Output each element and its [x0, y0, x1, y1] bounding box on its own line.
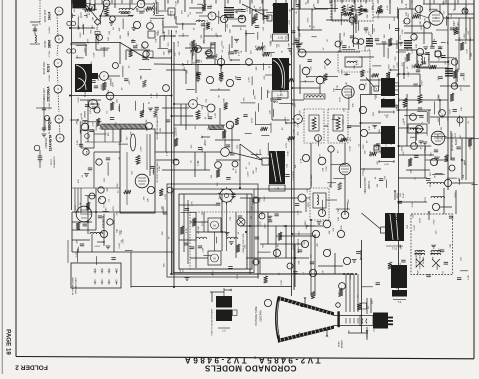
capacitor	[419, 114, 423, 116]
svg-text:0.047: 0.047	[180, 268, 182, 274]
svg-text:82K: 82K	[229, 28, 231, 32]
svg-text:270V: 270V	[339, 97, 341, 103]
wire	[210, 291, 224, 293]
wire	[118, 143, 128, 145]
hor hold control	[215, 162, 222, 169]
svg-text:33K: 33K	[201, 34, 203, 38]
focus dimension label	[218, 327, 230, 329]
svg-text:33K: 33K	[156, 6, 158, 10]
wire	[245, 30, 247, 52]
resistor	[142, 80, 146, 87]
left margin cap 1	[42, 107, 46, 109]
trap resistor 1	[312, 117, 316, 129]
wire	[369, 68, 371, 94]
svg-text:IM: IM	[78, 25, 80, 28]
svg-text:4.7K: 4.7K	[418, 130, 420, 135]
resistor	[256, 46, 263, 50]
top edge lead	[121, 0, 123, 4]
wire	[261, 157, 276, 159]
wire	[83, 8, 98, 10]
svg-text:RF TRANSFORMER: RF TRANSFORMER	[72, 277, 75, 295]
capacitor	[449, 215, 453, 217]
svg-text:33K: 33K	[251, 206, 253, 210]
wire	[76, 57, 84, 59]
wire	[404, 115, 420, 117]
wire	[267, 143, 269, 156]
top edge lead	[261, 0, 263, 4]
wire	[158, 48, 169, 50]
trap dashed box 1	[304, 109, 324, 143]
svg-text:270V: 270V	[422, 80, 424, 86]
filter choke box 2	[208, 251, 221, 265]
svg-text:82K: 82K	[253, 200, 255, 204]
first IF amp tube	[100, 72, 109, 81]
power supply outer wire loop	[167, 184, 258, 277]
sound resistor 1	[388, 38, 392, 46]
page right border line	[473, 0, 475, 359]
resistor	[429, 65, 436, 69]
wire	[424, 57, 426, 63]
wire	[378, 78, 380, 87]
voltage arrow	[232, 59, 240, 61]
wire hor section	[174, 103, 189, 105]
wire brightness net a	[292, 233, 312, 235]
wire	[95, 188, 97, 230]
hor cap 2	[226, 144, 230, 146]
vertical double bus (video line b)	[293, 0, 295, 290]
resistor	[444, 155, 448, 162]
svg-text:33K: 33K	[380, 150, 382, 154]
wire	[419, 74, 421, 94]
wire	[257, 198, 259, 226]
wire	[310, 143, 312, 188]
wire	[348, 332, 368, 334]
tube lineup legend circle V6 (12AX4GTA)	[56, 134, 64, 142]
wire	[311, 9, 313, 30]
wire audio out plate	[445, 137, 474, 139]
socket side box	[361, 303, 367, 309]
sound trap tube circle	[238, 15, 246, 23]
wire bus left lower	[71, 212, 73, 252]
capacitor	[195, 59, 199, 61]
top edge lead	[101, 0, 103, 4]
wire	[191, 49, 193, 60]
wire	[125, 50, 127, 60]
capacitor	[453, 109, 457, 111]
T6 dimension label	[379, 161, 394, 163]
wire osc coil down	[353, 24, 355, 47]
resistor	[357, 303, 361, 310]
ground	[84, 173, 89, 175]
resistor	[311, 291, 315, 298]
top edge lead	[445, 0, 447, 4]
ps circle 1	[167, 187, 173, 193]
wire	[349, 273, 351, 279]
wire	[162, 207, 164, 214]
sync amp tube	[81, 123, 89, 131]
svg-text:10K: 10K	[155, 38, 157, 42]
vert cap 2	[106, 157, 110, 159]
wire	[292, 99, 304, 101]
wire	[340, 12, 342, 25]
osc coil with core	[353, 15, 355, 25]
svg-text:IM: IM	[284, 225, 286, 228]
capacitor	[347, 125, 351, 127]
audio out wires	[406, 94, 408, 146]
top edge lead	[251, 0, 253, 4]
top edge lead	[307, 0, 309, 4]
capacitor	[110, 117, 114, 119]
damper tube (12AX4GTA)	[76, 206, 92, 222]
top edge lead	[131, 0, 133, 4]
audio det inner electrode	[432, 14, 440, 16]
wire T4 to tube	[395, 89, 399, 91]
IF circle a	[195, 46, 202, 53]
damper resistor 2	[86, 202, 90, 210]
wire	[218, 11, 220, 24]
osc winding stack	[366, 38, 373, 39]
ion trap coil	[317, 195, 319, 205]
wire	[94, 0, 96, 10]
resistor	[262, 52, 269, 56]
wire	[332, 119, 338, 121]
svg-text:120V: 120V	[464, 33, 466, 39]
voltage arrow	[392, 69, 399, 71]
svg-text:10K: 10K	[109, 30, 111, 34]
wire	[299, 29, 322, 31]
wire	[225, 19, 227, 32]
T5 white stripes	[271, 151, 281, 182]
svg-text:BEAM: BEAM	[338, 341, 341, 347]
resistor	[360, 70, 364, 77]
ground	[268, 215, 273, 217]
wire	[428, 110, 430, 124]
wire	[152, 168, 154, 175]
voltage arrow	[441, 99, 448, 101]
svg-text:270V: 270V	[237, 274, 239, 280]
capacitor	[457, 277, 461, 279]
resistor	[344, 12, 351, 16]
wire	[344, 143, 346, 163]
wire	[456, 69, 458, 82]
capacitor	[255, 25, 259, 27]
top edge lead	[465, 0, 467, 4]
svg-text:4.7K: 4.7K	[466, 48, 468, 53]
sync sep tube	[88, 99, 97, 108]
svg-text:IM: IM	[121, 87, 123, 90]
svg-text:270V: 270V	[108, 89, 110, 95]
filter coil 2	[227, 237, 238, 239]
svg-text:250V: 250V	[88, 38, 90, 44]
svg-text:120V: 120V	[279, 19, 281, 25]
right circle 1	[457, 117, 463, 123]
T4 connector lug	[374, 86, 379, 91]
capacitor	[85, 104, 89, 106]
wire	[432, 174, 445, 176]
hor circle 1	[173, 159, 179, 165]
svg-text:0.047: 0.047	[78, 96, 80, 102]
wire	[344, 74, 350, 76]
svg-text:120V: 120V	[442, 135, 444, 141]
right resistor r3	[450, 93, 454, 101]
svg-text:IM: IM	[293, 103, 295, 106]
audio output transformer shield T4 upper	[381, 78, 395, 96]
tube lineup legend circle V3 (6CG7)	[54, 59, 62, 67]
svg-text:47K: 47K	[400, 245, 402, 249]
wire	[459, 179, 461, 185]
svg-text:IM: IM	[213, 126, 215, 129]
svg-text:TV2-9485A, TV2-9486A: TV2-9485A, TV2-9486A	[182, 356, 320, 365]
svg-text:33K: 33K	[76, 120, 78, 124]
wire	[409, 0, 411, 9]
capacitor	[228, 266, 232, 268]
wire	[326, 199, 337, 201]
capacitor	[401, 259, 405, 261]
ground	[288, 48, 293, 50]
comb collector wire	[85, 141, 121, 143]
svg-text:120V: 120V	[281, 88, 283, 94]
ground	[372, 124, 377, 126]
IF cathode capacitor	[94, 85, 98, 87]
video out pentode	[339, 163, 351, 175]
svg-text:10K: 10K	[416, 44, 418, 48]
svg-text:33K: 33K	[148, 198, 150, 202]
svg-text:120V: 120V	[113, 206, 115, 212]
wire	[246, 211, 302, 213]
voltage arrow	[428, 213, 430, 220]
svg-text:DC NET RESISTANCE: DC NET RESISTANCE	[156, 116, 159, 139]
wire	[358, 22, 360, 31]
svg-text:82K: 82K	[348, 199, 350, 203]
brightness resistor	[278, 232, 282, 240]
wire	[403, 62, 405, 79]
tuner input coil L1	[119, 8, 133, 10]
svg-text:0.047: 0.047	[397, 61, 399, 67]
wire	[264, 51, 275, 53]
socket feed arrow	[366, 332, 368, 338]
picture tube callout circle	[264, 299, 271, 306]
svg-text:VERT OSC: VERT OSC	[43, 61, 46, 74]
line splitter symbol	[30, 43, 40, 45]
svg-text:10K: 10K	[287, 163, 289, 167]
IF cap c	[168, 49, 172, 51]
wire	[150, 57, 171, 59]
svg-text:4.7K: 4.7K	[289, 20, 291, 25]
wire	[362, 286, 373, 288]
page bottom border line	[16, 357, 474, 359]
wire	[336, 208, 350, 210]
hor osc wires	[165, 96, 167, 152]
comb drop wire 3	[120, 129, 122, 142]
wire	[266, 90, 268, 98]
rectifier socket circle (gear)	[220, 189, 233, 202]
tube lineup legend circle V4 (25CD6GA)	[54, 85, 62, 93]
wire	[100, 47, 109, 49]
wire	[114, 0, 116, 8]
wire	[300, 81, 314, 83]
svg-text:270V: 270V	[187, 60, 189, 66]
svg-text:10K: 10K	[119, 27, 121, 31]
wire	[386, 180, 388, 188]
vertical bus right (video output)	[398, 9, 400, 290]
wire	[312, 36, 317, 38]
rectifier socket pin tick	[226, 202, 228, 204]
top edge lead	[71, 0, 73, 4]
svg-text:IM: IM	[348, 330, 350, 333]
resistor	[153, 110, 157, 117]
antenna matching component	[30, 21, 40, 23]
T-13 white stripe	[390, 213, 398, 240]
vertical bus right (audio B+)	[447, 0, 449, 190]
wire	[95, 34, 97, 50]
ps circle 2	[253, 197, 259, 203]
capacitor	[91, 80, 95, 82]
svg-text:33K: 33K	[353, 103, 355, 107]
wire	[447, 177, 457, 179]
rectifier socket pin tick	[218, 192, 220, 195]
IF AGC resistor	[102, 82, 106, 90]
capacitor	[89, 129, 93, 131]
svg-text:270V: 270V	[365, 46, 367, 52]
wire	[410, 136, 415, 138]
resistor	[159, 189, 163, 196]
wire	[399, 73, 421, 75]
wire	[76, 44, 87, 46]
capacitor	[425, 52, 429, 54]
svg-text:82K: 82K	[373, 112, 375, 116]
svg-text:82K: 82K	[293, 171, 295, 175]
trap resistor 2	[336, 117, 340, 129]
wire	[77, 17, 79, 29]
resistor	[287, 78, 294, 82]
capacitor	[184, 242, 188, 244]
wire	[348, 96, 350, 109]
wire IF line	[199, 15, 208, 17]
wire	[87, 196, 89, 234]
IF circle f	[163, 85, 170, 92]
boost coil	[90, 232, 103, 234]
wire	[361, 122, 382, 124]
main vertical bus (center, B+ line)	[173, 42, 175, 287]
wire	[107, 162, 109, 176]
video out pentode grid lines	[341, 165, 349, 167]
wire	[154, 63, 195, 66]
fine tuning box	[168, 8, 175, 15]
top edge lead	[227, 0, 229, 4]
top edge lead	[401, 0, 403, 4]
wire	[458, 115, 460, 126]
capacitor	[438, 46, 442, 48]
top edge lead	[191, 0, 193, 4]
wire	[465, 4, 467, 40]
wire	[95, 256, 97, 265]
svg-text:2.2M: 2.2M	[203, 248, 205, 253]
wire	[181, 211, 197, 213]
svg-text:33K: 33K	[399, 98, 401, 102]
ground	[131, 27, 136, 29]
svg-text:33K: 33K	[384, 34, 386, 38]
svg-text:IM: IM	[290, 9, 292, 12]
wire	[359, 56, 374, 58]
wire	[113, 213, 115, 252]
svg-text:AUDIO OUTPUT: AUDIO OUTPUT	[451, 132, 454, 151]
wire	[429, 8, 438, 10]
wire	[318, 265, 343, 267]
socket feed wire	[366, 298, 368, 314]
svg-text:2.2M: 2.2M	[412, 48, 414, 53]
svg-text:25CD6GA: 25CD6GA	[47, 86, 51, 102]
wire	[292, 118, 294, 120]
svg-text:+385V: +385V	[305, 220, 307, 227]
svg-text:270V: 270V	[391, 139, 393, 145]
svg-text:4.7K: 4.7K	[247, 6, 249, 11]
capacitor	[379, 178, 383, 180]
svg-text:47K: 47K	[447, 40, 449, 44]
svg-text:4.7K: 4.7K	[110, 96, 112, 101]
wire	[150, 17, 165, 19]
comb drop wire 2	[112, 129, 114, 142]
resistor	[235, 118, 239, 125]
svg-text:120V: 120V	[424, 17, 426, 23]
trap dashed box 2	[328, 109, 348, 143]
capacitor	[295, 40, 299, 42]
audio output transformer shield T4 lower	[381, 99, 395, 108]
wire to T3	[265, 74, 272, 76]
top edge lead	[89, 0, 91, 4]
wire	[342, 119, 344, 124]
svg-text:10K: 10K	[295, 164, 297, 168]
width circle	[432, 203, 439, 210]
wire	[435, 172, 443, 174]
capacitor	[139, 10, 143, 12]
sound out label circle	[359, 84, 365, 90]
vert osc coil oval	[130, 134, 135, 151]
ground	[352, 259, 357, 261]
svg-text:10K: 10K	[86, 150, 88, 154]
wire	[119, 42, 121, 64]
rectifier socket pin tick	[221, 189, 222, 191]
resistor	[206, 22, 210, 29]
flyback terminal box	[262, 158, 269, 165]
ground	[463, 9, 468, 11]
ratio det resistor 1	[342, 5, 346, 15]
wire	[239, 144, 241, 188]
oscillator coil with slug	[153, 3, 155, 15]
wire	[110, 78, 112, 85]
top edge lead	[423, 0, 425, 4]
tube lineup legend circle V5 (12BQ6A)	[55, 115, 63, 123]
capacitor	[79, 143, 83, 145]
svg-text:4.7K: 4.7K	[387, 5, 389, 10]
wire	[454, 0, 456, 10]
CRT anode up arrow	[304, 299, 306, 305]
top edge lead	[377, 0, 379, 4]
svg-text:47K: 47K	[243, 97, 245, 101]
svg-text:CONTRAST: CONTRAST	[310, 173, 313, 186]
sound circle 1	[349, 17, 355, 23]
wire	[85, 195, 96, 197]
wire	[399, 177, 428, 179]
wire	[103, 210, 109, 212]
svg-text:2.2M: 2.2M	[256, 167, 258, 172]
wire	[164, 0, 166, 10]
wire	[97, 35, 99, 44]
svg-text:250V: 250V	[430, 182, 432, 188]
wire	[186, 88, 195, 90]
svg-text:270V: 270V	[429, 57, 431, 63]
audio circle small 2	[404, 18, 410, 24]
wire RF to mixer	[86, 5, 97, 19]
